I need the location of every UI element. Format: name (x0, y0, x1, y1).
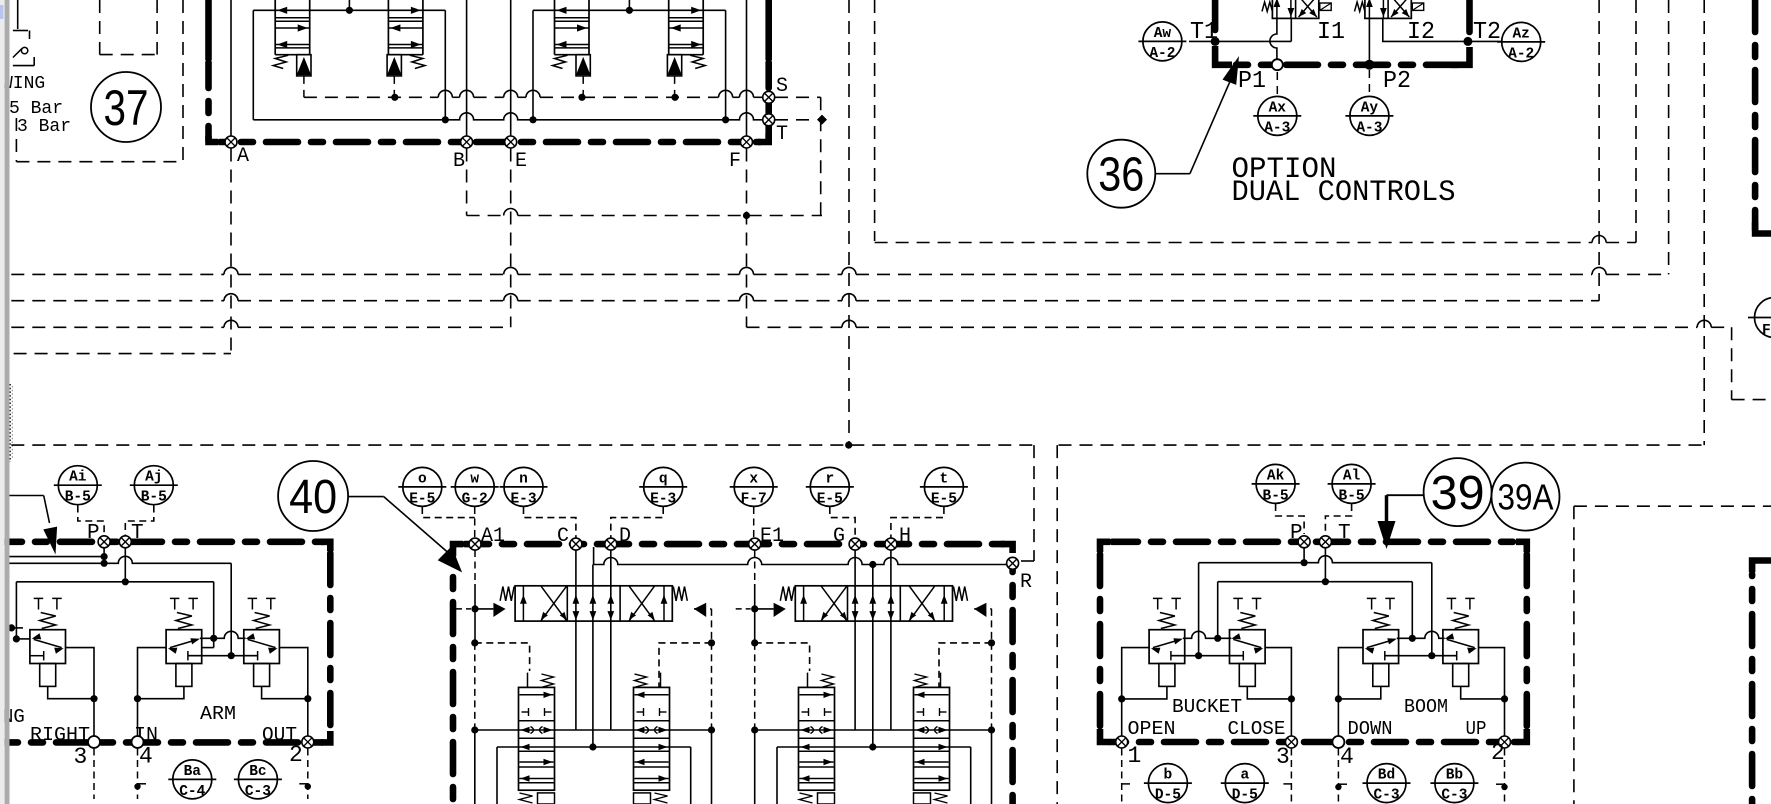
node at 445 on y120 (442, 116, 449, 123)
wire V1 right port (66, 648, 95, 742)
svg-text:CLOSE: CLOSE (1228, 718, 1286, 740)
svg-text:A-3: A-3 (1356, 120, 1382, 136)
leader arrow 38 (10, 495, 44, 497)
connector b (1148, 764, 1187, 803)
svg-text:x: x (749, 471, 758, 487)
wire V2 stem rb (1247, 686, 1291, 699)
enclosure 39 top border (1100, 542, 1110, 552)
port 2 rb (1499, 736, 1511, 748)
wire P riser (103, 548, 105, 563)
drain link V3-V4 rb (1385, 655, 1457, 657)
rail P drop left rb (1198, 563, 1200, 656)
wire G line (854, 550, 856, 730)
svg-text:P1: P1 (1238, 68, 1266, 95)
port F (741, 136, 753, 148)
bus riser x849 (848, 0, 850, 445)
wire T riser (124, 548, 126, 582)
frame pair1 right (659, 643, 712, 687)
svg-text:2: 2 (1491, 740, 1505, 766)
svg-text:n: n (519, 471, 528, 487)
svg-text:S: S (776, 75, 788, 98)
lead port3 down rb (1290, 749, 1292, 804)
connector t (924, 467, 963, 506)
enclosure 37 left border (205, 0, 212, 60)
frame pair2 left (755, 643, 810, 671)
connector F partial (1755, 298, 1771, 338)
port P left box (98, 536, 110, 548)
switch S1 symbol (17, 0, 19, 29)
wire V2 left port (138, 648, 167, 742)
svg-text:4: 4 (1340, 744, 1354, 770)
bus riser x1704 (1703, 0, 1705, 445)
svg-text:39A: 39A (1498, 476, 1554, 517)
wire T2 to Az (1468, 40, 1501, 42)
wire V3 left port rb (1338, 648, 1363, 742)
wire V1 left port rb (1122, 648, 1149, 742)
lower rail pair2 left drop (776, 747, 778, 804)
wire P2 riser (1368, 18, 1370, 60)
tip line V2-V3 (200, 631, 246, 638)
stack valve SV3 (799, 687, 835, 790)
wire T dashed east (775, 119, 816, 121)
wire A drop (230, 149, 232, 354)
tip line V1-V2 rb (1183, 631, 1231, 638)
svg-text:RIGHT: RIGHT (30, 724, 90, 746)
svg-text:3: 3 (1276, 744, 1290, 770)
port B (461, 136, 473, 148)
lower rail pair2 right drop (970, 747, 972, 804)
rail T drop right rb (1411, 582, 1413, 639)
wire B-F-S link y215 (467, 215, 504, 217)
proportional valve pair 1 (515, 586, 672, 621)
node pair2 right shuttle (988, 726, 995, 733)
wire V0 tip stub (10, 627, 24, 629)
valve BUCKET CLOSE (1233, 597, 1243, 599)
svg-text:Bc: Bc (249, 764, 266, 780)
connector Al (1332, 464, 1371, 503)
pilot pair1 supply rail (253, 9, 445, 11)
svg-text:A-3: A-3 (1264, 120, 1290, 136)
port T left box (119, 536, 131, 548)
svg-text:Ba: Ba (184, 764, 202, 780)
wire I2 tank line (1383, 18, 1468, 41)
connector o (403, 467, 442, 506)
balloon 37 (91, 72, 161, 142)
lead port3 down (93, 749, 95, 800)
wire B drop (466, 149, 468, 216)
node T drop right (210, 635, 217, 642)
wire port A riser (230, 0, 232, 142)
lower rail pair1 left drop (496, 747, 498, 804)
connector q (644, 467, 683, 506)
svg-text:R: R (1020, 571, 1032, 594)
port 3 rb (1285, 736, 1297, 748)
pilot valve PV1 (274, 0, 276, 55)
node pair2 right frame (988, 639, 995, 646)
svg-text:H: H (899, 525, 911, 548)
svg-text:w: w (470, 471, 479, 487)
enclosure 40 right border (1001, 544, 1013, 553)
port T right box (1319, 536, 1331, 548)
frame drop right pair2 (991, 730, 993, 804)
svg-text:ARM: ARM (200, 703, 236, 725)
svg-text:Az: Az (1512, 26, 1529, 42)
svg-text:DUAL CONTROLS: DUAL CONTROLS (1232, 176, 1456, 210)
enclosure 40 left border (453, 544, 463, 556)
wire V2 right port (202, 647, 214, 649)
wire port F riser (746, 0, 748, 142)
valve ARM IN (170, 597, 180, 599)
rail T drop left (15, 582, 17, 639)
svg-text:B-5: B-5 (1339, 488, 1365, 504)
svg-text:D-5: D-5 (1232, 788, 1258, 804)
leader 39 (1387, 494, 1424, 496)
wire E1 drop (754, 550, 756, 584)
svg-text:DOWN: DOWN (1348, 718, 1393, 740)
stack valve SV1 (519, 687, 555, 790)
svg-text:B-5: B-5 (1263, 488, 1289, 504)
thick frame top right vertical (1752, 0, 1759, 230)
lower rail pair1 right drop (690, 747, 692, 804)
bus line 1 (11, 273, 224, 275)
connector Aj (134, 466, 173, 505)
node P right box (1301, 559, 1308, 566)
svg-text:4: 4 (139, 744, 153, 770)
svg-text:C: C (557, 525, 569, 548)
wire V1 stem rb (1122, 686, 1167, 699)
wire pair2 right drop (725, 10, 727, 120)
svg-text:D: D (619, 525, 631, 548)
svg-text:E-5: E-5 (931, 491, 957, 507)
svg-text:G-2: G-2 (462, 491, 488, 507)
svg-text:B: B (453, 150, 465, 173)
svg-text:36: 36 (1098, 149, 1144, 202)
port 2 (302, 736, 314, 748)
wire F drop (746, 149, 748, 328)
svg-text:E1: E1 (760, 525, 784, 548)
svg-text:Al: Al (1343, 468, 1361, 484)
svg-text:Ai: Ai (69, 470, 87, 486)
wire P1 riser with hop (1270, 18, 1277, 59)
node drain PV3 (578, 94, 585, 101)
port C (570, 538, 582, 550)
wire pair1 right pilot dashed (711, 609, 713, 643)
valve SWING RIGHT (34, 597, 44, 599)
wire T riser rb (1324, 548, 1326, 582)
node pair1 right shuttle (708, 726, 715, 733)
dotted ruler artifact (9, 384, 11, 462)
connector Ba (173, 760, 212, 799)
lead Ak to P (1276, 504, 1305, 534)
rail T drop left rb (1217, 582, 1219, 639)
svg-text:r: r (825, 471, 834, 487)
connector w (455, 467, 494, 506)
junction diamond (817, 115, 827, 125)
enclosure 40 top border (465, 541, 1005, 548)
node mid1 end (589, 743, 596, 750)
node T2 (1463, 37, 1472, 46)
svg-text:T: T (776, 123, 788, 146)
connector a (1225, 764, 1264, 803)
node A1 pilot (471, 605, 478, 612)
lead q to D (611, 507, 663, 538)
boundary line y445 west (11, 444, 1034, 446)
connector Bd (1367, 764, 1406, 803)
wire V3 stem drain (262, 686, 308, 698)
svg-text:BOOM: BOOM (1404, 696, 1448, 718)
svg-text:C-3: C-3 (1373, 788, 1399, 804)
lead o-w (422, 507, 474, 518)
svg-text:37: 37 (104, 80, 149, 136)
node V2 drain join (134, 695, 141, 702)
frame pair2 right (939, 643, 992, 687)
connector Ax (1258, 96, 1297, 135)
node T rail rb (1322, 578, 1329, 585)
svg-text:E: E (515, 150, 527, 173)
drain link V2-V3 (188, 655, 258, 657)
bus line 3 east drop (1731, 327, 1733, 399)
port E1 (749, 538, 761, 550)
valve ARM OUT (248, 597, 258, 599)
wire pair2 right pilot dashed (991, 609, 993, 643)
port A (225, 136, 237, 148)
connector Az (1502, 22, 1541, 61)
wire A link west (14, 353, 231, 355)
svg-text:a: a (1240, 768, 1249, 784)
rail P main (10, 556, 232, 563)
svg-text:OPEN: OPEN (1128, 718, 1176, 740)
lower rail pair2 (777, 746, 971, 748)
connector n (504, 467, 543, 506)
rail P drop right rb (1431, 563, 1433, 656)
rail P drop (230, 563, 232, 655)
thick frame top right corner (1755, 222, 1771, 234)
connector r (810, 467, 849, 506)
wire H line (890, 550, 892, 730)
node E1 shuttle (751, 726, 758, 733)
connector Bb (1435, 764, 1474, 803)
pilot valve PV3 (554, 0, 556, 55)
port P1 (1272, 59, 1283, 70)
leader 40 (348, 496, 384, 498)
tip line V3-V4 rb (1397, 631, 1445, 638)
svg-text:E-3: E-3 (650, 491, 676, 507)
wire P riser rb (1303, 548, 1305, 563)
pilot valve PV2 (387, 0, 389, 55)
rail P right box (1199, 556, 1432, 563)
node mid2 on rail (869, 561, 876, 568)
bus line 2 riser (1598, 0, 1600, 301)
page gutter repaint (0, 0, 5, 804)
svg-text:E-5: E-5 (409, 491, 435, 507)
svg-text:G: G (833, 525, 845, 548)
wire D line (610, 550, 612, 730)
enclosure 36 right border (1451, 47, 1470, 65)
port P right box (1298, 536, 1310, 548)
bus line 3 east (747, 326, 843, 328)
node A1 frame (471, 639, 478, 646)
drain link V1-V2 rb (1171, 655, 1243, 657)
boundary line y445 east (1059, 444, 1705, 446)
node T drop left (13, 635, 20, 642)
stack valve SV4 (914, 687, 950, 790)
port A1 (469, 538, 481, 550)
connector Ay (1350, 96, 1389, 135)
bus line 1 riser (1668, 0, 1670, 274)
svg-text:Aw: Aw (1154, 26, 1172, 42)
lead port2 down (307, 749, 309, 800)
valve BOOM UP (1447, 597, 1457, 599)
enclosure 39 bottom border (1100, 729, 1110, 742)
svg-text:B-5: B-5 (65, 490, 91, 506)
node V3 drain join (304, 695, 311, 702)
bus line 2 (11, 300, 224, 302)
svg-text:B-5: B-5 (141, 490, 167, 506)
frame right box left edge (1056, 445, 1058, 804)
svg-text:2: 2 (289, 742, 303, 768)
balloon 39A (1492, 463, 1560, 531)
svg-text:F-7: F-7 (741, 491, 767, 507)
frame pair1 left (475, 643, 530, 671)
node mid2 end (869, 743, 876, 750)
boundary drop to R (1033, 445, 1035, 561)
thick frame bottom right vertical (1749, 574, 1756, 804)
wire port B riser (466, 0, 468, 142)
lower rail pair1 (497, 746, 691, 748)
stack valve SV2 (634, 687, 670, 790)
connector x (734, 467, 773, 506)
wire V1 stem drain (48, 686, 94, 698)
lead x to E1 (753, 507, 755, 538)
wire E drop (510, 149, 512, 328)
svg-text:A-2: A-2 (1149, 46, 1175, 62)
valve BUCKET OPEN (1153, 597, 1163, 599)
pilot valve PV4 (668, 0, 670, 55)
valve BOOM DOWN (1367, 597, 1377, 599)
solenoid valve I2 (1365, 0, 1411, 18)
enclosure 38 right border (321, 542, 330, 551)
svg-text:3 Bar: 3 Bar (17, 117, 71, 137)
connector Aw (1143, 22, 1182, 61)
enclosure 37 right border (765, 0, 772, 60)
lead P1 to Ax (1276, 72, 1278, 95)
node T rail (122, 578, 129, 585)
port 4 (132, 736, 144, 748)
svg-text:40: 40 (289, 471, 337, 524)
lead port4 down rb (1337, 749, 1339, 804)
svg-text:Bb: Bb (1446, 768, 1464, 784)
lead w to A1 (474, 507, 476, 538)
svg-text:Aj: Aj (145, 470, 162, 486)
svg-text:Ay: Ay (1361, 100, 1379, 116)
svg-text:I1: I1 (1317, 19, 1345, 46)
node drain PV4 (671, 94, 678, 101)
rail T right box (1218, 581, 1413, 583)
node drain PV2 (391, 94, 398, 101)
shuttle rail pair1 (475, 729, 712, 731)
port 1 rb (1116, 736, 1128, 748)
node P drop end (228, 652, 235, 659)
svg-text:Bd: Bd (1378, 768, 1395, 784)
node A1 shuttle (471, 726, 478, 733)
svg-text:3: 3 (74, 744, 88, 770)
rail P stub (10, 556, 105, 558)
svg-text:C-3: C-3 (245, 784, 271, 800)
bus line 3 west (11, 326, 224, 328)
shuttle rail pair2 (755, 729, 992, 731)
svg-text:E-5: E-5 (817, 491, 843, 507)
node x849 on y445 (845, 442, 852, 449)
wire mid2 line (872, 565, 874, 748)
lead n to C (524, 507, 576, 538)
balloon 36 (1087, 140, 1155, 208)
node at 533 on y120 (529, 116, 536, 123)
port E (505, 136, 517, 148)
port 4 rb (1332, 736, 1344, 748)
wire V3 right port (279, 648, 307, 742)
wire mid1 line (592, 565, 594, 748)
svg-text:F: F (1762, 323, 1771, 339)
balloon 40 (278, 461, 348, 531)
node E1 pilot (751, 605, 758, 612)
wire C line (575, 550, 577, 730)
svg-text:Ax: Ax (1269, 100, 1287, 116)
wire frame bottom y120 (253, 113, 768, 120)
pilot pair2 supply rail (533, 9, 726, 11)
lead port2 down rb (1504, 749, 1506, 804)
page gutter light strip (0, 0, 5, 804)
proportional valve pair 2 (795, 586, 952, 621)
node E1 frame (751, 639, 758, 646)
svg-text:t: t (940, 471, 949, 487)
enclosure 36 left border (1212, 0, 1219, 30)
wire V2 right port rb (1265, 648, 1291, 742)
svg-text:P2: P2 (1383, 68, 1411, 95)
svg-text:F: F (729, 150, 741, 173)
svg-text:Ak: Ak (1267, 468, 1285, 484)
thin dashed frame bottom right (1573, 506, 1575, 804)
port H (885, 538, 897, 550)
svg-text:A1: A1 (481, 525, 505, 548)
svg-text:o: o (418, 471, 427, 487)
svg-text:b: b (1164, 768, 1173, 784)
svg-text:39: 39 (1431, 467, 1485, 520)
svg-text:C-3: C-3 (1441, 788, 1467, 804)
port G (849, 538, 861, 550)
enclosure 38 bottom border (321, 731, 330, 742)
wire S drop (820, 97, 822, 215)
port S (763, 91, 775, 103)
port R (1007, 557, 1019, 569)
node T1 (1211, 37, 1220, 46)
pilot bank inner frame (252, 10, 254, 120)
leader 36 (1156, 173, 1190, 175)
port 3 (88, 736, 100, 748)
svg-text:1: 1 (1128, 743, 1142, 769)
thick frame bottom right corner (1752, 561, 1771, 573)
node pair1 supply (346, 7, 353, 14)
wire A1 drop (474, 550, 476, 584)
node V1 drain join (90, 695, 97, 702)
wire T1 line (1215, 40, 1291, 42)
balloon 39 (1424, 458, 1492, 526)
frame drop right pair1 (711, 730, 713, 804)
node at 725.6 on y120 (722, 116, 729, 123)
enclosure 37 bottom border (209, 136, 219, 142)
wire V4 right port rb (1479, 648, 1505, 742)
enclosure 38 top border (0, 538, 324, 545)
svg-text:UP: UP (1466, 718, 1487, 740)
